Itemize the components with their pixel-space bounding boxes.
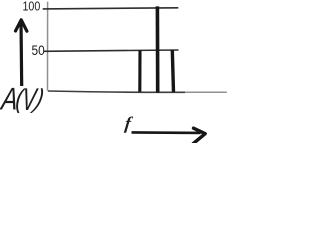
svg-text:50: 50	[32, 42, 45, 58]
svg-text:f: f	[124, 113, 134, 133]
svg-text:100: 100	[23, 0, 41, 14]
